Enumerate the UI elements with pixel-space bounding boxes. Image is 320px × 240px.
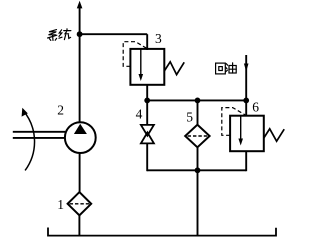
relief valve 3: pilot line (dashed) <box>123 42 146 67</box>
relief valve 3: internal flow arrow <box>140 50 142 76</box>
wire: lower horizontal bus y=170 <box>147 169 246 171</box>
relief valve 6: pilot line (dashed) <box>222 108 245 136</box>
node: system junction <box>77 31 83 37</box>
filter 5: diamond <box>185 125 209 148</box>
pump 2: flow direction triangle (filled, up) <box>74 124 87 134</box>
wire: bus to filter 5 <box>197 100 199 125</box>
svg-text:6: 6 <box>252 100 259 115</box>
wire: valve 3 out down to valve 4 <box>146 85 148 125</box>
svg-text:4: 4 <box>136 107 143 122</box>
relief valve 6: spring <box>264 129 284 141</box>
relief valve 3: body box <box>130 49 164 85</box>
node: junction on lower bus <box>195 167 201 173</box>
pump 2: rotation arrow arc <box>23 111 34 171</box>
svg-text:1: 1 <box>57 197 64 212</box>
tank: reservoir line with end ticks <box>48 228 276 236</box>
wire: middle horizontal bus y=100 <box>147 99 246 101</box>
relief valve 6: body box <box>230 116 264 152</box>
wire: filter 5 down to lower bus <box>197 147 199 170</box>
relief valve 6: internal flow arrow <box>240 116 242 140</box>
shutoff valve 4 (bowtie) <box>141 125 154 136</box>
wire: drop into valve 3 top <box>146 34 148 50</box>
pump 2: circle <box>65 122 96 153</box>
wire: drain to tank <box>197 170 199 235</box>
wire: filter 1 to tank <box>78 215 80 236</box>
node: junction below valve 3 <box>144 98 150 104</box>
node: junction with return-oil line <box>243 98 249 104</box>
arrow: return oil flow (downward) <box>244 64 249 72</box>
wire: pump to filter 1 <box>79 153 81 193</box>
wire: valve 6 out to lower bus <box>245 151 247 171</box>
svg-text:5: 5 <box>186 110 193 125</box>
relief valve 3: spring <box>164 62 184 75</box>
label 系 (hand-drawn glyph) <box>48 30 57 41</box>
label 回 (hand-drawn glyph) <box>216 63 226 74</box>
pump 2: drive shaft (double line) <box>13 131 66 133</box>
label 油 (hand-drawn glyph) <box>226 63 237 73</box>
label 统 (hand-drawn glyph) <box>59 29 71 40</box>
wire: system supply vertical line (pump to system port) <box>79 6 81 123</box>
filter 1: diamond <box>68 192 92 215</box>
svg-text:3: 3 <box>155 31 162 46</box>
node: junction above filter 5 <box>195 98 201 104</box>
wire: junction to relief valve 3 (horizontal) <box>80 33 148 35</box>
filter 1: internal dashed line <box>70 203 90 205</box>
arrow: to system (upward) <box>77 1 83 9</box>
filter 5: internal dashed line <box>188 135 208 137</box>
wire: valve 4 down to lower bus <box>146 143 148 171</box>
svg-text:2: 2 <box>57 103 64 118</box>
wire: return oil vertical <box>245 55 247 117</box>
